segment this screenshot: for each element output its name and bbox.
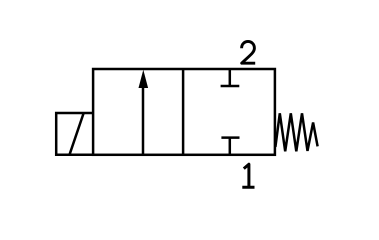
position divider line [182, 69, 185, 155]
blocked port 2 stub [229, 69, 232, 86]
solenoid diagonal stroke [70, 114, 84, 155]
blocked port 1 bar [221, 136, 239, 139]
port label 2 [242, 41, 256, 63]
flow path arrowhead [139, 70, 149, 88]
solenoid actuator box [56, 113, 93, 155]
port label 1 [242, 164, 254, 187]
blocked port 1 stub [229, 138, 232, 155]
flow path arrow shaft [142, 84, 145, 155]
blocked port 2 bar [221, 85, 240, 88]
valve body outline (two-position envelope) [93, 69, 275, 155]
return spring zigzag [275, 113, 317, 151]
